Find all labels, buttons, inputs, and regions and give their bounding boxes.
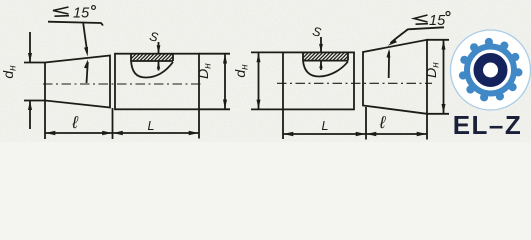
svg-text:L: L bbox=[322, 119, 329, 133]
svg-text:15: 15 bbox=[73, 6, 90, 22]
svg-text:L: L bbox=[148, 119, 155, 133]
svg-text:ℓ: ℓ bbox=[71, 113, 78, 132]
svg-text:EL–Z: EL–Z bbox=[453, 110, 523, 140]
svg-text:ℓ: ℓ bbox=[379, 113, 386, 132]
